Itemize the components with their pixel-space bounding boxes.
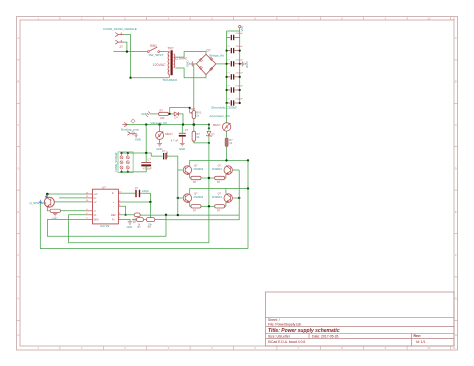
resistor R10 <box>133 213 140 224</box>
capacitor C3 <box>226 46 244 53</box>
wire bypass over diode to pot wiper <box>170 108 190 114</box>
wire IC pin5 left <box>69 214 86 216</box>
wire sense divider <box>149 202 151 218</box>
svg-text:Bridge_Alt: Bridge_Alt <box>210 54 224 58</box>
svg-text:Ampmeter_DC: Ampmeter_DC <box>210 114 231 118</box>
wire IC pin2 <box>122 201 150 203</box>
wire IC pin12 <box>59 197 86 199</box>
svg-text:A: A <box>455 36 457 40</box>
svg-text:11: 11 <box>452 346 455 350</box>
svg-text:D?: D? <box>211 132 215 136</box>
svg-text:GND: GND <box>135 138 141 142</box>
svg-text:11: 11 <box>452 16 455 20</box>
ground at cap bank right <box>240 61 249 67</box>
wire divider joins <box>132 219 166 221</box>
binding post J2 <box>121 119 139 131</box>
wire R9 to IC bus <box>61 210 86 212</box>
wire pin2 hook <box>124 42 127 52</box>
svg-text:C?: C? <box>135 186 139 190</box>
wire collector bus upper <box>190 160 248 165</box>
switch SW1 SW_SPST <box>147 44 163 57</box>
svg-text:120VAC: 120VAC <box>153 63 167 67</box>
svg-text:10: 10 <box>427 346 431 350</box>
base rail left <box>177 170 179 215</box>
IC U1 UA723 <box>86 186 123 229</box>
capacitor C4 <box>226 59 244 66</box>
svg-text:Electrolytic_2200uF: Electrolytic_2200uF <box>212 105 238 109</box>
wire zener rail down <box>208 137 210 243</box>
wire pot bottom to main <box>193 121 195 125</box>
svg-text:Id: 1/1: Id: 1/1 <box>416 340 426 344</box>
svg-text:D?: D? <box>207 49 211 53</box>
svg-text:2200uF: 2200uF <box>236 99 244 101</box>
capacitor C6 <box>226 86 244 93</box>
wire IC pin13 <box>54 201 85 203</box>
svg-text:CONN_SCREW: CONN_SCREW <box>114 152 118 172</box>
wire diode to junction, down to main <box>179 114 183 125</box>
output rail right <box>247 160 249 248</box>
svg-text:J?: J? <box>120 45 124 49</box>
transformer TR1 TRANSFO <box>153 47 189 83</box>
label arrow at collector <box>45 195 47 198</box>
ground at bridge left <box>186 61 197 67</box>
binding post J3 with ground <box>127 131 141 141</box>
ground divider <box>129 218 131 220</box>
svg-text:F: F <box>17 253 19 257</box>
diode D2 <box>174 112 178 120</box>
wire bridge minus down to regulator feed <box>193 64 195 111</box>
svg-text:2N3904: 2N3904 <box>193 167 203 171</box>
wire lower base left <box>178 197 183 199</box>
svg-text:A: A <box>17 36 19 40</box>
resistor R6 <box>215 176 225 179</box>
wire emitter join upper <box>201 177 215 179</box>
svg-text:H: H <box>17 333 19 337</box>
svg-text:R?: R? <box>192 107 196 111</box>
capacitor C8 polarized <box>171 125 189 143</box>
transistor Q1 2N3904 upper-left <box>183 165 203 175</box>
wire C9 bottom to screw header bottom row <box>122 166 147 172</box>
wire resistor to diode <box>169 113 175 115</box>
wire IC pin3 feedback loop <box>122 206 126 215</box>
ground below C8 <box>179 137 185 151</box>
svg-text:Size: USLetter: Size: USLetter <box>268 334 291 338</box>
resistor R7 <box>191 205 201 208</box>
ammeter MES2 <box>213 123 231 131</box>
svg-text:E: E <box>455 210 457 214</box>
base rail bottom link <box>140 214 239 216</box>
global label arrow <box>39 200 41 204</box>
svg-text:VCC: VCC <box>240 26 244 32</box>
svg-text:Q_NPN_BCE: Q_NPN_BCE <box>30 201 47 205</box>
wire screw header top row <box>122 153 163 156</box>
svg-text:GND: GND <box>52 217 58 220</box>
wire C10 to output rail <box>167 156 178 170</box>
wire IC pin6 left <box>47 218 85 220</box>
resistor R2 (series) <box>159 109 169 120</box>
wire IC pin7 to ground <box>122 219 130 221</box>
base rail right <box>238 170 240 215</box>
svg-text:GND: GND <box>186 61 190 67</box>
ground IC pin7 <box>127 222 133 229</box>
wire secondary bottom to bridge bottom <box>175 68 206 78</box>
wire lower base right <box>233 197 240 199</box>
svg-text:F: F <box>455 253 457 257</box>
svg-text:B: B <box>17 80 19 84</box>
svg-text:2N3904: 2N3904 <box>193 195 203 199</box>
bridge rectifier D1 <box>196 49 224 75</box>
svg-text:MES?: MES? <box>213 123 221 127</box>
svg-text:R?: R? <box>160 109 164 113</box>
junction <box>129 77 131 79</box>
svg-text:U?: U? <box>102 186 106 190</box>
screw terminal block P1 CONN_SCREW <box>114 152 133 173</box>
resistor R12 <box>146 218 154 229</box>
capacitor C7 <box>226 99 244 106</box>
wire secondary top to bridge <box>175 52 206 58</box>
svg-text:H: H <box>455 333 457 337</box>
svg-text:2200uF: 2200uF <box>236 73 244 75</box>
svg-text:D?: D? <box>175 116 179 120</box>
capacitor C5 <box>226 73 244 80</box>
wire upper base right <box>233 169 240 171</box>
resistor R9 <box>50 209 61 212</box>
svg-text:B: B <box>455 80 457 84</box>
svg-text:E: E <box>17 210 19 214</box>
svg-text:CONN_01X02_FEMALE: CONN_01X02_FEMALE <box>103 27 137 31</box>
svg-text:GND: GND <box>179 147 185 151</box>
svg-text:TR?: TR? <box>168 47 174 51</box>
capacitor C10 <box>162 149 169 160</box>
wire main horizontal bus <box>127 124 209 126</box>
svg-text:2N3904: 2N3904 <box>212 167 222 171</box>
wire IC pin10 to C11 <box>122 192 135 194</box>
svg-text:REF: REF <box>111 214 116 217</box>
junction <box>126 50 128 52</box>
svg-text:File: PowerSupply.sch: File: PowerSupply.sch <box>268 322 301 326</box>
svg-text:GND: GND <box>245 62 249 68</box>
wire bridge plus to cap bank <box>216 63 227 65</box>
wire loop3 <box>40 203 248 248</box>
wire bottom AC line <box>131 77 169 79</box>
resistor R8 <box>215 205 225 208</box>
svg-text:Binding_post: Binding_post <box>121 127 139 131</box>
wire loop1 <box>47 219 166 236</box>
svg-text:2N3904: 2N3904 <box>212 195 222 199</box>
svg-text:KiCad E.D.A. kicad 4.0.6: KiCad E.D.A. kicad 4.0.6 <box>268 340 305 344</box>
voltmeter MES1 <box>156 125 174 140</box>
capacitor C9 big electrolytic <box>141 153 152 171</box>
svg-text:Date: 2017-05-26: Date: 2017-05-26 <box>312 334 339 338</box>
ground left of R/D row <box>141 112 150 117</box>
wire IC pin11 to Q5 collector <box>47 193 85 195</box>
wire R3 bottom to zener rail <box>194 141 209 143</box>
wire upper base left <box>178 169 183 171</box>
wire collector bus lower <box>190 189 248 194</box>
svg-text:100pF: 100pF <box>142 190 149 193</box>
svg-text:-V: -V <box>94 210 97 213</box>
title block <box>266 292 455 346</box>
resistor R3 vertical <box>192 125 200 142</box>
capacitor C2 <box>227 33 244 40</box>
zener diode D3 on rail <box>206 125 215 137</box>
connector J1 CONN_01X02_FEMALE <box>103 27 137 49</box>
big filter cap C9 wiring <box>145 125 147 153</box>
svg-text:Rev:: Rev: <box>414 334 421 338</box>
potentiometer RV1 <box>190 107 202 121</box>
wire upper emitters <box>190 175 226 179</box>
resistor R4 shunt <box>225 131 233 146</box>
svg-text:TRANSFO: TRANSFO <box>163 78 178 82</box>
wire loop2 <box>69 215 209 243</box>
svg-text:MES?: MES? <box>165 132 173 136</box>
svg-text:C?: C? <box>185 128 189 132</box>
svg-text:UA723: UA723 <box>100 224 110 228</box>
transistor Q2 2N3904 upper-right <box>212 165 233 175</box>
wire conn bus down <box>130 52 132 78</box>
svg-text:SW1: SW1 <box>150 44 157 48</box>
svg-text:+V: +V <box>94 201 97 204</box>
wire main top AC line <box>114 51 148 53</box>
power flag VCC <box>239 26 244 32</box>
ammeter feed wire <box>226 103 228 123</box>
svg-text:SEN: SEN <box>94 218 99 221</box>
svg-text:2200uF: 2200uF <box>236 33 244 35</box>
ground below R9 <box>52 213 58 220</box>
svg-text:C?: C? <box>162 149 166 153</box>
wire switch to transformer <box>160 51 170 53</box>
svg-text:Voltmeter_DC: Voltmeter_DC <box>151 121 168 125</box>
svg-text:10: 10 <box>427 16 431 20</box>
wire C11 to inv input <box>140 193 150 202</box>
svg-text:220: 220 <box>160 116 165 120</box>
wire pin9 to R10 <box>122 214 134 216</box>
wire emitter join lower <box>201 205 215 207</box>
capacitor C11 <box>135 186 150 197</box>
wire shunt to output node <box>226 147 228 160</box>
svg-text:2200uF: 2200uF <box>236 59 244 61</box>
svg-text:GND: GND <box>127 226 133 229</box>
wire feedback step <box>166 215 239 236</box>
wire lower emitters <box>190 203 226 207</box>
svg-text:C?: C? <box>148 158 152 162</box>
ground below voltmeter <box>156 139 162 151</box>
resistor R5 <box>191 176 201 179</box>
svg-text:Title: Power supply schematic: Title: Power supply schematic <box>268 328 340 334</box>
transistor Q3 2N3904 lower-left <box>183 193 203 203</box>
svg-text:2200uF: 2200uF <box>236 86 244 88</box>
wire gnd to resistor <box>151 113 159 115</box>
svg-text:4700uF: 4700uF <box>143 167 152 171</box>
wire pin1 to bus <box>124 35 131 52</box>
resistor R11 <box>137 218 144 229</box>
svg-text:100nF: 100nF <box>165 151 169 159</box>
transistor Q4 2N3904 lower-right <box>212 193 233 203</box>
svg-text:4.7 uF: 4.7 uF <box>171 138 179 142</box>
svg-text:2200uF: 2200uF <box>236 46 244 48</box>
capacitor bank rails <box>227 31 240 103</box>
svg-text:SW_SPST: SW_SPST <box>149 53 164 57</box>
transistor Q5 Q_NPN_BCE <box>30 194 55 211</box>
